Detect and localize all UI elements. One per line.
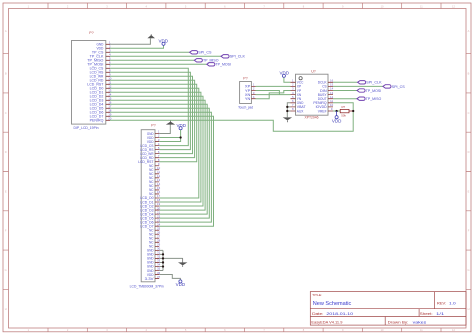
junction GND bus [162, 253, 164, 255]
wire LCD_RD bus [110, 80, 195, 157]
wire VREF [333, 110, 340, 112]
svg-text:Sheet:: Sheet: [420, 311, 433, 316]
junction VREF-VDD [335, 110, 337, 112]
net label TP_MISO (right) [357, 97, 381, 101]
svg-text:Touch_pad: Touch_pad [238, 105, 253, 109]
svg-text:H: H [468, 307, 470, 311]
wire LCD_WR bus [110, 76, 193, 153]
svg-text:VDD: VDD [159, 38, 169, 43]
net label SPI_CLK (right) [358, 81, 382, 85]
power flag VDD (top) [159, 38, 169, 45]
title block [310, 292, 466, 326]
svg-text:D: D [468, 150, 470, 154]
wire YP (jog down) [256, 91, 280, 95]
svg-text:VDD: VDD [280, 70, 290, 75]
svg-text:PENIRQ: PENIRQ [90, 119, 104, 123]
svg-text:50k: 50k [341, 114, 346, 118]
wire GND P1.1 to ground flag [110, 38, 150, 44]
wire YN (crossover) [256, 91, 291, 99]
svg-text:G: G [467, 268, 469, 272]
wire VDD P5.3 [159, 130, 180, 142]
wire TP_MOSI to TP_MOSI flag [110, 63, 207, 65]
svg-text:E: E [468, 189, 470, 193]
wire LCD_D1 bus [110, 92, 201, 202]
net label SPI_CS [190, 51, 212, 55]
junction P5 VDD [179, 136, 181, 138]
svg-text:SPI_CLK: SPI_CLK [366, 81, 382, 85]
svg-text:VDD: VDD [177, 123, 187, 128]
wire VDD P5.36 [159, 275, 180, 281]
svg-text:Drawn By:: Drawn By: [388, 321, 409, 325]
wire LCD_D2 bus [110, 96, 203, 206]
wire LCD_D6 bus [110, 112, 211, 222]
ground flag (down arrow) P5 right [178, 258, 187, 266]
svg-text:R?: R? [341, 105, 345, 109]
ground flag (down arrow) under XPT2046 [283, 117, 292, 122]
svg-text:2018-01-10: 2018-01-10 [326, 311, 354, 316]
power flag VDD (XPT2046 VCC) [280, 70, 290, 77]
wire DCLK to SPI_CLK flag [333, 81, 358, 83]
wire LCD_D7 bus [110, 116, 214, 226]
svg-text:P?: P? [89, 31, 93, 35]
ground flag (up arrow) at P5 top [166, 121, 175, 125]
svg-text:vakes: vakes [413, 321, 427, 325]
svg-text:REV:: REV: [437, 300, 446, 305]
svg-text:VDD: VDD [176, 282, 186, 287]
wire VCC to VDD [284, 77, 291, 82]
wire TP_CLK to SPI_CLK flag [110, 55, 221, 57]
junction GND bus [162, 257, 164, 259]
junction resistor-PENIRQ [352, 110, 354, 112]
net label TP_MOSI [207, 63, 231, 67]
svg-text:YN: YN [245, 97, 251, 101]
power flag VDD (VREF) [332, 111, 342, 124]
ground flag (up arrow) at P1 [147, 34, 155, 38]
svg-text:1.0: 1.0 [449, 300, 457, 305]
wire LCD_RS bus [110, 72, 190, 149]
IC U? XPT2046 touch controller [291, 69, 334, 119]
junction VBAT [286, 106, 288, 108]
svg-text:P?: P? [243, 77, 247, 81]
wire GND P5.1 to ground flag [159, 125, 170, 134]
junction GND bus [162, 261, 164, 263]
wire GND bus P5 [159, 250, 183, 270]
svg-text:G: G [5, 268, 7, 272]
wire CS to SPI_CS flag [333, 85, 383, 87]
svg-text:37: 37 [157, 275, 161, 279]
svg-text:D: D [5, 150, 7, 154]
wire VDD P5.2 [159, 137, 180, 139]
svg-text:EasyEDA V4.11.9: EasyEDA V4.11.9 [311, 321, 342, 325]
wire TP_CS to SPI_CS flag [110, 51, 190, 53]
svg-text:B: B [468, 71, 470, 75]
net label TP_MOSI (right) [357, 89, 381, 93]
svg-text:E: E [5, 189, 7, 193]
svg-text:DIP_LCD_19Pin: DIP_LCD_19Pin [74, 126, 99, 130]
svg-text:C: C [468, 111, 470, 115]
wire DIN to TP_MOSI flag [333, 90, 357, 92]
svg-text:1/1: 1/1 [436, 311, 444, 316]
svg-text:TP_MOSI: TP_MOSI [216, 63, 232, 67]
wire LCD_D4 bus [110, 104, 207, 214]
svg-text:A: A [468, 29, 470, 33]
wire LCD_D0 bus [110, 88, 199, 198]
wire TP_MISO to TP_MISO flag [110, 59, 194, 61]
svg-text:Date:: Date: [312, 311, 323, 316]
svg-text:TITLE:: TITLE: [312, 293, 322, 297]
svg-text:P?: P? [151, 124, 155, 128]
svg-text:A: A [5, 29, 7, 33]
wire XP [256, 85, 291, 87]
svg-text:C: C [5, 111, 7, 115]
net label SPI_CS (right) [383, 85, 405, 89]
svg-text:TP_MOSI: TP_MOSI [366, 89, 382, 93]
net label TP_MISO [194, 59, 218, 63]
connector P? Touch_pad [238, 77, 255, 110]
svg-text:H: H [5, 307, 7, 311]
connector P5 LCD_TM8000M_37Pin [130, 124, 164, 289]
junction GND bus [162, 265, 164, 267]
svg-text:LCD_TM8000M_37Pin: LCD_TM8000M_37Pin [130, 285, 164, 289]
wire DOUT to TP_MISO flag [333, 98, 357, 100]
svg-text:XPT2046: XPT2046 [305, 115, 319, 119]
svg-text:U?: U? [311, 69, 316, 73]
wire LCD_D3 bus [110, 100, 205, 210]
svg-text:TP_MISO: TP_MISO [366, 97, 382, 101]
connector P1 DIP_LCD_19Pin [72, 31, 112, 130]
wire PENIRQ [110, 103, 353, 131]
svg-text:New Schematic: New Schematic [313, 301, 352, 307]
wire GND VBAT AUX [287, 103, 290, 117]
wire LCD_D5 bus [110, 108, 209, 218]
resistor R? 50k [340, 105, 353, 118]
power flag VDD (P5 top) [177, 123, 187, 130]
wire XN [256, 94, 291, 96]
svg-text:SPI_CS: SPI_CS [198, 51, 212, 55]
svg-text:VREF: VREF [318, 109, 328, 113]
junction AUX [286, 110, 288, 112]
svg-text:B: B [5, 71, 7, 75]
wire LCD_CS bus [110, 68, 188, 145]
svg-text:3.3V: 3.3V [145, 277, 155, 281]
net label SPI_CLK [221, 55, 245, 59]
svg-text:SPI_CS: SPI_CS [392, 85, 406, 89]
svg-text:VDD: VDD [332, 119, 342, 124]
power flag VDD (P5 bottom) [176, 280, 186, 287]
svg-text:AUX: AUX [297, 109, 304, 113]
svg-text:SPI_CLK: SPI_CLK [230, 55, 246, 59]
wire LCD_RST bus [110, 84, 197, 161]
wire VDD P1.2 to VDD flag [110, 45, 164, 48]
